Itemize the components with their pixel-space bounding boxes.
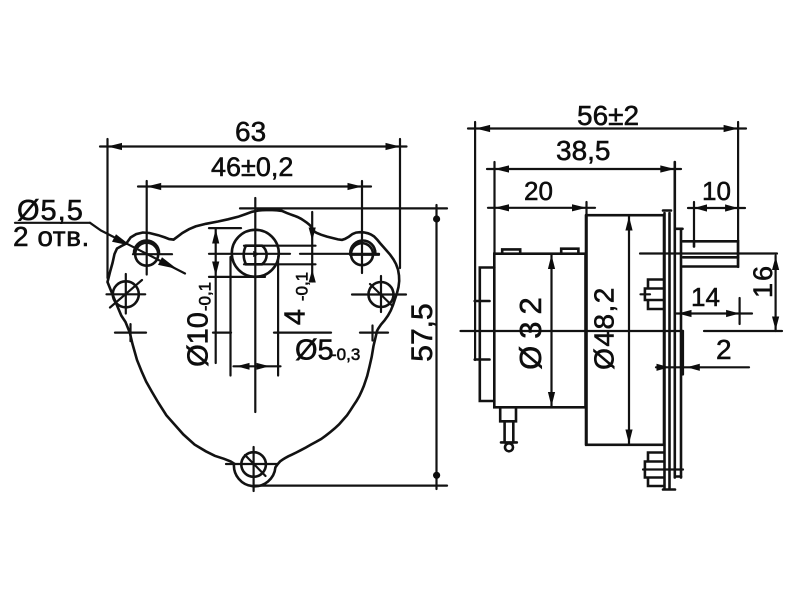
svg-text:10: 10 bbox=[702, 176, 731, 206]
svg-text:16: 16 bbox=[748, 264, 778, 298]
svg-text:57,5: 57,5 bbox=[406, 303, 439, 361]
svg-text:56±2: 56±2 bbox=[577, 100, 639, 131]
svg-text:63: 63 bbox=[235, 116, 266, 147]
svg-text:46±0,2: 46±0,2 bbox=[211, 152, 293, 182]
svg-text:38,5: 38,5 bbox=[556, 135, 611, 166]
svg-text:Ø10: Ø10 bbox=[183, 312, 215, 367]
svg-text:20: 20 bbox=[524, 176, 553, 206]
svg-text:14: 14 bbox=[691, 282, 720, 312]
svg-text:Ø32: Ø32 bbox=[513, 290, 548, 370]
svg-text:4: 4 bbox=[280, 309, 312, 325]
svg-text:-0,1: -0,1 bbox=[292, 272, 311, 301]
svg-text:Ø48,2: Ø48,2 bbox=[588, 286, 619, 370]
svg-text:Ø5: Ø5 bbox=[295, 335, 334, 367]
svg-text:2: 2 bbox=[716, 334, 732, 365]
svg-text:-0,3: -0,3 bbox=[331, 345, 360, 364]
svg-text:-0,1: -0,1 bbox=[195, 282, 214, 311]
svg-text:2 отв.: 2 отв. bbox=[13, 221, 90, 252]
